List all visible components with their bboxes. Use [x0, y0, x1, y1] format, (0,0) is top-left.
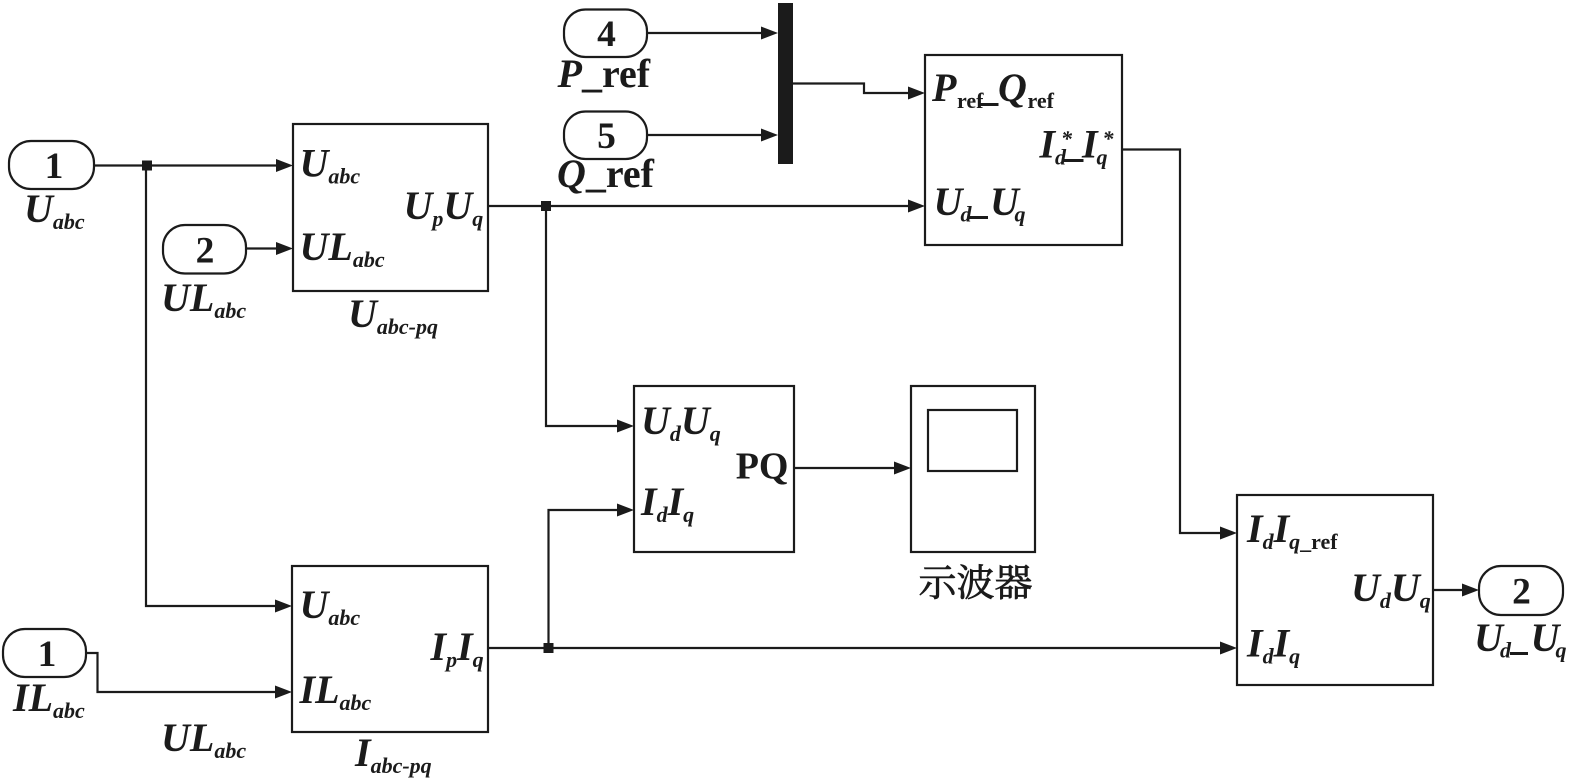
svg-text:IpIq: IpIq [430, 624, 484, 672]
svg-text:q: q [1097, 145, 1108, 170]
svg-text:1: 1 [45, 146, 64, 187]
svg-text:PQ: PQ [736, 446, 789, 488]
svg-text:4: 4 [597, 14, 616, 55]
svg-text:IdIq_ref: IdIq_ref [1246, 506, 1338, 554]
svg-text:1: 1 [38, 634, 57, 675]
svg-text:UdUq: UdUq [641, 398, 721, 446]
svg-text:Uabc: Uabc [300, 141, 361, 189]
svg-text:Uabc: Uabc [24, 186, 85, 234]
svg-text:Uabc-pq: Uabc-pq [348, 291, 438, 339]
svg-text:2: 2 [1512, 572, 1531, 613]
svg-text:Q: Q [998, 65, 1027, 110]
svg-text:2: 2 [196, 231, 215, 272]
svg-text:ULabc: ULabc [300, 224, 385, 272]
svg-text:Iabc-pq: Iabc-pq [354, 730, 432, 778]
svg-text:ref: ref [957, 88, 984, 113]
svg-text:q: q [1556, 638, 1567, 663]
svg-text:P: P [931, 65, 957, 110]
svg-text:IdIq: IdIq [640, 479, 694, 527]
svg-text:UpUq: UpUq [404, 183, 484, 231]
svg-text:d: d [1055, 145, 1067, 170]
svg-text:q: q [1015, 202, 1026, 227]
svg-text:Uabc: Uabc [300, 582, 361, 630]
svg-text:d: d [961, 202, 973, 227]
svg-text:P_ref: P_ref [557, 51, 651, 96]
svg-text:ref: ref [1028, 88, 1055, 113]
svg-text:IdIq: IdIq [1246, 621, 1300, 669]
svg-text:Q_ref: Q_ref [557, 151, 655, 196]
svg-text:UdUq: UdUq [1351, 565, 1431, 613]
svg-text:I: I [1039, 122, 1057, 167]
svg-text:ULabc: ULabc [161, 275, 246, 323]
svg-text:ILabc: ILabc [12, 675, 85, 723]
svg-text:ULabc: ULabc [161, 715, 246, 763]
svg-text:d: d [1500, 638, 1512, 663]
svg-text:ILabc: ILabc [299, 667, 372, 715]
